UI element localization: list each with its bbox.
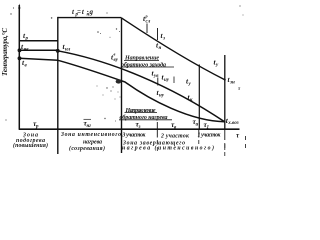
svg-text:х.воз: х.воз xyxy=(227,121,238,126)
svg-text:з: з xyxy=(138,125,141,130)
divider below axis x=197.3 xyxy=(198,130,200,138)
svg-text:3 участок: 3 участок xyxy=(122,133,147,139)
underline text block 1 line 2 xyxy=(121,66,174,68)
top plateau line t_p=t_n xyxy=(58,17,122,19)
svg-text:(повышения): (повышения) xyxy=(13,142,48,149)
svg-text:р: р xyxy=(145,14,148,19)
svg-text:з: з xyxy=(162,36,165,41)
svg-text:р: р xyxy=(25,37,29,42)
tick under label t_sl xyxy=(146,24,148,34)
tick below t_i label xyxy=(173,77,175,84)
zone divider 2 xyxy=(121,18,123,153)
svg-text:в: в xyxy=(114,52,116,57)
svg-text:обратного захода: обратного захода xyxy=(121,61,166,68)
svg-text:зн: зн xyxy=(229,80,235,85)
node circle left on t_v xyxy=(18,57,21,60)
svg-text:р: р xyxy=(35,124,39,129)
svg-text:2 участок: 2 участок xyxy=(160,133,190,139)
curve 1 (upper cooling curve) xyxy=(58,51,225,122)
svg-text:нл: нл xyxy=(65,47,71,52)
ink blob at curve2/divider junction xyxy=(116,79,122,83)
svg-text:Зона интенсивного: Зона интенсивного xyxy=(60,132,121,138)
svg-text:р: р xyxy=(75,13,79,18)
curve 2 (lower cooling curve) xyxy=(58,60,225,122)
svg-text:сл: сл xyxy=(146,19,151,24)
below-axis dashes x=157 xyxy=(156,140,158,144)
svg-text:н: н xyxy=(87,13,90,18)
overbar on tau_ng xyxy=(84,118,92,120)
zone divider 1 xyxy=(57,17,59,154)
svg-text:Направление: Направление xyxy=(125,108,156,114)
svg-text:нагрева: нагрева xyxy=(83,140,102,146)
level line t_nv (start of curve 1) xyxy=(19,49,57,51)
tick above diagonal at x=157.5 xyxy=(157,28,159,40)
divider below axis at x=157.5 xyxy=(156,130,158,138)
zone divider at x=224.8 xyxy=(224,55,226,130)
right margin dash xyxy=(244,136,246,140)
scan specks xyxy=(5,5,243,121)
tick above axis at x=157.5 xyxy=(156,122,158,130)
junction dot curves convergence xyxy=(224,121,226,123)
below-axis dashes x=225 xyxy=(224,143,226,148)
svg-text:нв: нв xyxy=(24,47,30,52)
svg-text:и: и xyxy=(196,122,199,127)
node circle left on t_nv xyxy=(18,49,21,52)
svg-text:Направление: Направление xyxy=(124,56,159,62)
mid tick at x=157.5 xyxy=(157,78,159,86)
underline text block 2 line 2 xyxy=(119,119,172,121)
svg-text:(созревания): (созревания) xyxy=(69,145,105,152)
below-axis dash x=197 xyxy=(198,140,200,144)
svg-text:нагрева (интенсивного): нагрева (интенсивного) xyxy=(122,145,214,152)
svg-text:ву: ву xyxy=(114,58,119,63)
zone divider at x=197.3 xyxy=(198,65,200,130)
level line t_p xyxy=(19,40,58,42)
svg-text:1: 1 xyxy=(207,125,210,130)
dash below x=224.8 xyxy=(224,144,226,150)
svg-text:ув: ув xyxy=(153,74,159,79)
svg-text:Температура,°С: Температура,°С xyxy=(1,28,9,76)
svg-text:нг: нг xyxy=(87,124,92,129)
svg-text:обратного нагрева: обратного нагрева xyxy=(120,114,168,121)
divider below axis x=224.8 xyxy=(224,130,226,141)
underline text block 2 line 1 xyxy=(125,112,158,114)
level line t_v (start of curve 2) xyxy=(19,58,58,60)
junction dot diagonal end xyxy=(224,79,226,81)
cooling diagonal xyxy=(121,18,225,80)
underline text block 1 line 1 xyxy=(124,59,159,61)
svg-text:иу: иу xyxy=(164,78,170,83)
svg-text:1 участок: 1 участок xyxy=(198,132,222,138)
node circle right on t_nv xyxy=(56,49,59,52)
x-axis xyxy=(19,128,240,130)
svg-text:ну: ну xyxy=(159,93,165,98)
y-axis arrowhead xyxy=(18,4,20,9)
y-axis xyxy=(18,5,20,130)
svg-text:н: н xyxy=(159,46,162,51)
